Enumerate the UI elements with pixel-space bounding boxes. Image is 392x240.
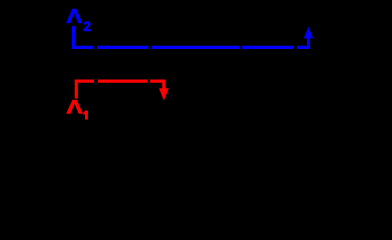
label Lambda_1 (red): [66, 96, 87, 119]
svg-text:2: 2: [83, 18, 91, 34]
wire: blue dashed horizontal segment 3: [152, 46, 240, 49]
arrowhead: red down arrow: [159, 88, 169, 100]
wire: red dashed horizontal segment 2: [98, 79, 148, 82]
label Lambda_2 (blue): [66, 5, 91, 34]
wire: blue dashed horizontal segment 2: [97, 46, 149, 49]
svg-text:Λ: Λ: [66, 5, 82, 28]
wire: blue right corner up: [297, 38, 309, 48]
wire: red right corner down: [150, 81, 164, 89]
arrowhead: blue up arrow at right end: [304, 27, 313, 39]
wire: blue dashed horizontal segment 4: [242, 46, 294, 49]
svg-text:Λ: Λ: [66, 96, 82, 118]
wire: red left corner (shaft up from Lambda_1 to line): [76, 81, 94, 98]
wire: blue left vertical shaft with corner: [74, 26, 93, 47]
subscript 1 drawn as path (narrow bold one): [84, 111, 88, 120]
